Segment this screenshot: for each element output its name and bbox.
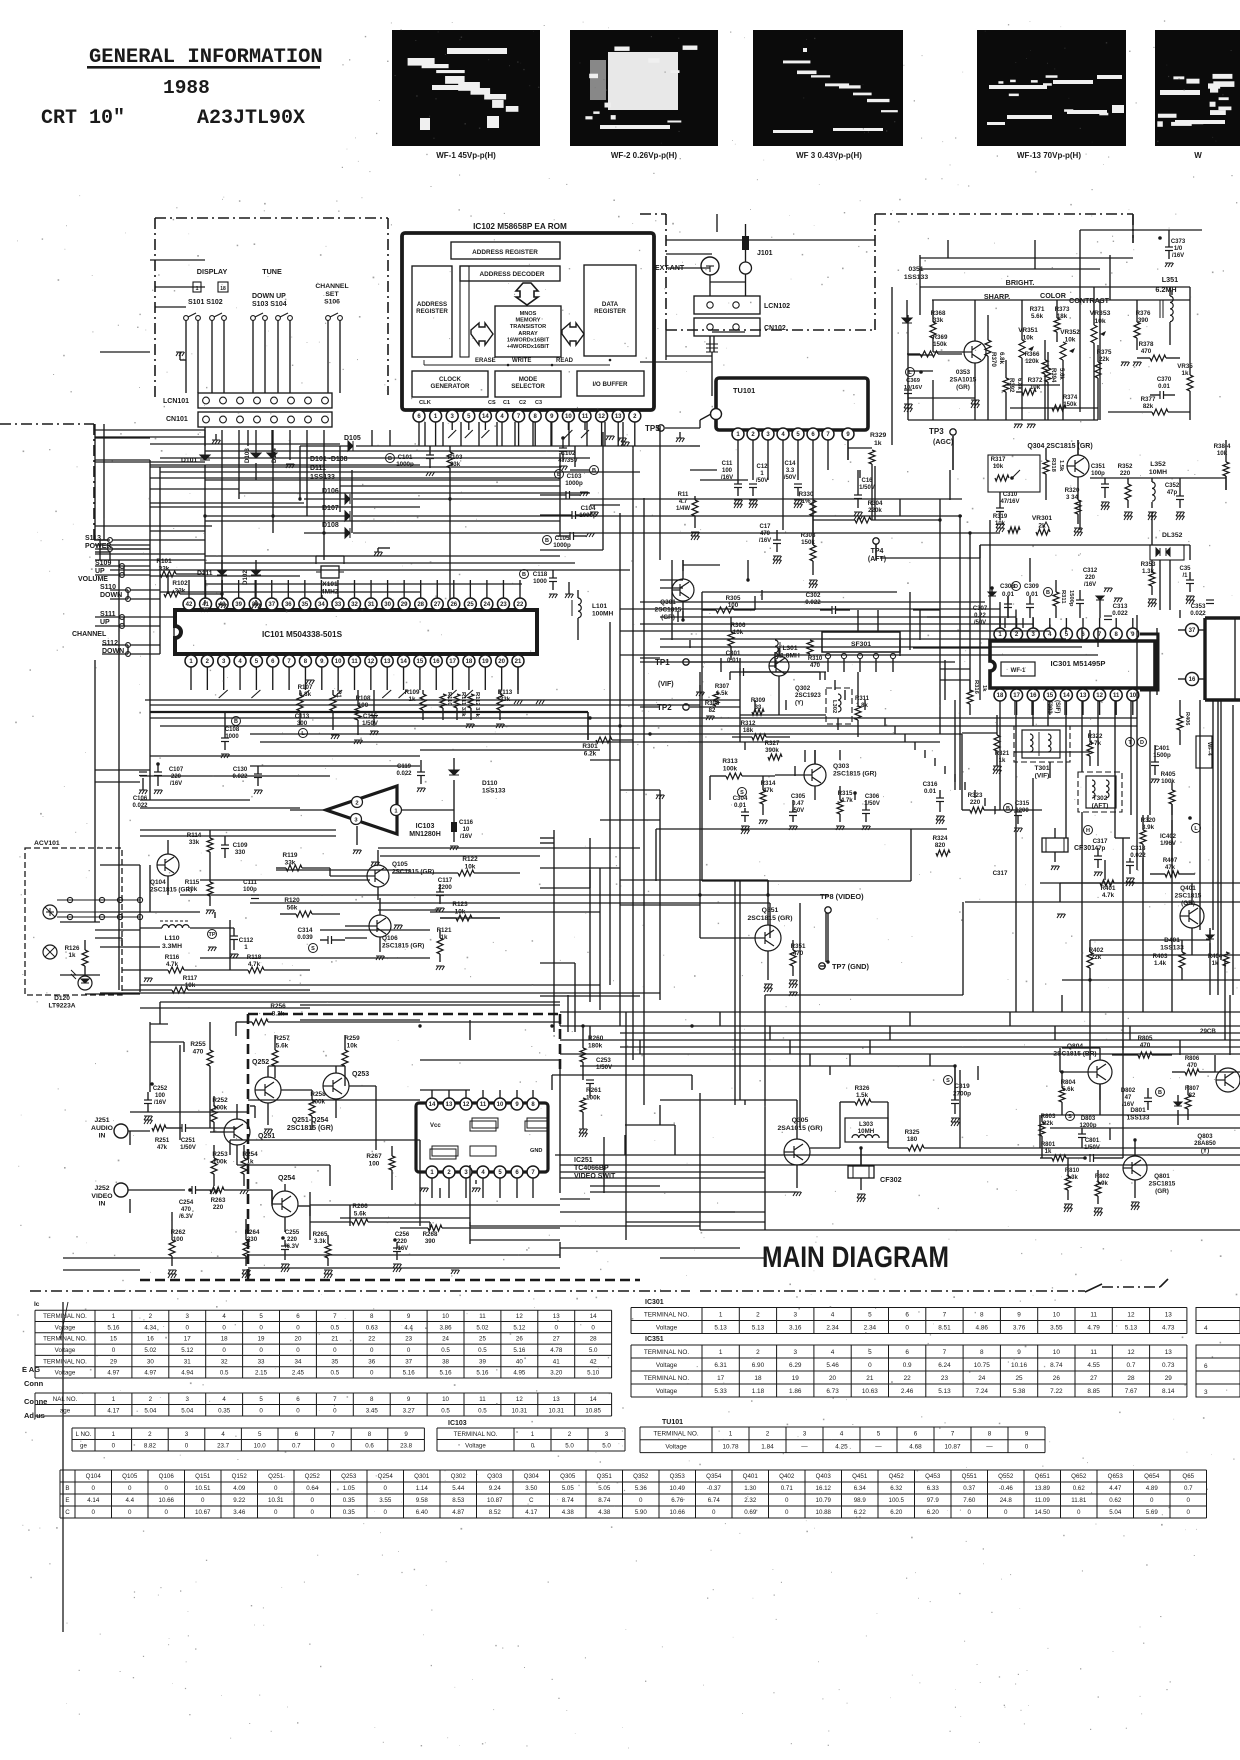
capacitor C369 10/16V [906, 368, 915, 377]
svg-text:10.31: 10.31 [512, 1407, 528, 1414]
svg-text:5.46: 5.46 [826, 1362, 839, 1369]
svg-text:0: 0 [296, 1407, 300, 1414]
svg-text:1SS133: 1SS133 [482, 788, 506, 795]
svg-text:6.90: 6.90 [752, 1362, 765, 1369]
svg-text:C304: C304 [733, 795, 748, 802]
svg-text:age: age [60, 1407, 71, 1414]
svg-text:0: 0 [201, 1497, 205, 1504]
svg-text:AUDIO: AUDIO [91, 1125, 113, 1132]
capacitor C317 47p [1084, 826, 1093, 835]
svg-text:41: 41 [553, 1358, 560, 1365]
svg-text:Q304: Q304 [524, 1473, 540, 1480]
svg-text:21: 21 [515, 659, 522, 665]
svg-text:10k: 10k [1065, 336, 1076, 343]
svg-text:8.74: 8.74 [598, 1497, 611, 1504]
svg-text:IN: IN [99, 1133, 106, 1140]
svg-text:5.16: 5.16 [403, 1370, 416, 1377]
svg-text:4.38: 4.38 [562, 1509, 575, 1516]
svg-text:7: 7 [331, 1431, 335, 1438]
svg-text:13: 13 [384, 659, 391, 665]
svg-text:9: 9 [1025, 1431, 1029, 1438]
svg-text:R305: R305 [726, 595, 741, 602]
pin 37 circle [1186, 624, 1199, 637]
svg-text:R366: R366 [1025, 351, 1040, 358]
svg-text:16: 16 [1030, 693, 1037, 699]
svg-text:VOLUME: VOLUME [78, 576, 108, 583]
wires from switches to connector [185, 320, 187, 393]
svg-text:C252: C252 [153, 1086, 168, 1092]
svg-text:R374: R374 [1063, 395, 1078, 401]
svg-text:Ic: Ic [34, 1301, 40, 1308]
svg-text:14: 14 [429, 1102, 436, 1108]
svg-text:0: 0 [531, 1442, 535, 1449]
svg-text:1/50V: 1/50V [180, 1145, 196, 1151]
svg-text:Q653: Q653 [1108, 1473, 1124, 1480]
svg-text:8: 8 [370, 1313, 374, 1320]
svg-text:12: 12 [1127, 1311, 1135, 1318]
svg-text:2SC1815: 2SC1815 [1175, 892, 1202, 899]
svg-text:6: 6 [905, 1311, 909, 1318]
svg-text:10: 10 [442, 1396, 449, 1403]
svg-text:R804: R804 [1061, 1079, 1076, 1086]
svg-text:6.20: 6.20 [927, 1509, 940, 1516]
svg-text:C12: C12 [756, 464, 768, 470]
svg-text:Q253: Q253 [341, 1473, 357, 1480]
svg-text:4.86: 4.86 [976, 1324, 989, 1331]
svg-text:CHANNEL: CHANNEL [315, 283, 348, 290]
svg-text:15: 15 [110, 1336, 117, 1343]
svg-text:Q651: Q651 [1035, 1473, 1051, 1480]
svg-text:5.05: 5.05 [598, 1485, 611, 1492]
svg-text:6: 6 [296, 1396, 300, 1403]
svg-text:4: 4 [1204, 1325, 1208, 1332]
svg-text:0.01: 0.01 [1158, 384, 1170, 390]
svg-text:120k: 120k [1025, 358, 1039, 365]
svg-text:L303: L303 [859, 1121, 874, 1128]
svg-text:11.81: 11.81 [1071, 1497, 1087, 1504]
svg-text:D801: D801 [1130, 1107, 1146, 1114]
svg-text:180k: 180k [588, 1042, 603, 1049]
svg-text:390: 390 [425, 1238, 436, 1245]
svg-text:0.01: 0.01 [1026, 591, 1039, 598]
svg-text:0: 0 [185, 1442, 189, 1449]
svg-text:L101: L101 [592, 603, 607, 610]
svg-text:0: 0 [222, 1347, 226, 1354]
svg-text:5.13: 5.13 [1125, 1324, 1138, 1331]
svg-text:C314: C314 [298, 927, 313, 934]
svg-text:TUNE: TUNE [262, 267, 282, 276]
svg-text:Q106: Q106 [159, 1473, 175, 1480]
svg-text:13: 13 [615, 414, 622, 420]
capacitor C256 220/16V [393, 1238, 397, 1242]
svg-text:C317: C317 [993, 870, 1008, 877]
svg-text:1k: 1k [69, 952, 76, 959]
svg-text:S: S [946, 1078, 950, 1084]
svg-text:C317: C317 [1093, 838, 1108, 845]
capacitor C108 1000 [232, 717, 241, 726]
svg-text:Q302: Q302 [451, 1473, 467, 1480]
svg-text:29: 29 [1165, 1375, 1173, 1382]
svg-text:(Y): (Y) [795, 699, 803, 706]
svg-text:2.46: 2.46 [901, 1388, 914, 1395]
svg-text:100: 100 [369, 1160, 380, 1167]
svg-text:8: 8 [368, 1431, 372, 1438]
svg-text:C106: C106 [133, 796, 148, 802]
svg-text:23: 23 [405, 1336, 412, 1343]
svg-text:0: 0 [591, 1324, 595, 1331]
svg-text:10: 10 [1053, 1311, 1061, 1318]
svg-text:5.12: 5.12 [513, 1324, 526, 1331]
svg-text:15: 15 [1046, 693, 1053, 699]
svg-text:100k: 100k [723, 765, 738, 772]
transistor Q302 2SC1923 [769, 656, 789, 676]
svg-text:R116: R116 [165, 954, 180, 961]
svg-text:2SC1815: 2SC1815 [1149, 1180, 1176, 1187]
svg-text:(VIF): (VIF) [658, 681, 674, 688]
svg-text:470: 470 [181, 1207, 192, 1213]
svg-text:5.16: 5.16 [440, 1370, 453, 1377]
svg-text:97.9: 97.9 [927, 1497, 940, 1504]
svg-text:TP7 (GND): TP7 (GND) [832, 962, 869, 971]
svg-text:VR351: VR351 [1018, 327, 1038, 334]
AC inlet symbol 2 [43, 945, 57, 959]
svg-text:TP8 (VIDEO): TP8 (VIDEO) [820, 892, 864, 901]
table 9-terminal voltages [72, 1427, 424, 1429]
svg-text:C11: C11 [722, 461, 733, 467]
svg-text:R376: R376 [1136, 310, 1151, 317]
svg-text:IN: IN [99, 1201, 106, 1208]
svg-text:D120: D120 [54, 995, 70, 1002]
svg-text:100MH: 100MH [592, 611, 613, 618]
svg-text:(GR): (GR) [1155, 1188, 1169, 1195]
ACV101 dashed enclosure [25, 848, 122, 995]
svg-text:R252: R252 [212, 1097, 228, 1104]
svg-text:T303: T303 [1046, 700, 1052, 714]
svg-text:6.73: 6.73 [826, 1388, 839, 1395]
svg-text:6.34: 6.34 [854, 1485, 867, 1492]
svg-text:0.62: 0.62 [1073, 1485, 1086, 1492]
svg-text:3.20: 3.20 [550, 1370, 563, 1377]
svg-text:220: 220 [213, 1204, 224, 1211]
IC102 data register box [584, 265, 636, 356]
svg-text:9: 9 [407, 1313, 411, 1320]
svg-text:0.5: 0.5 [478, 1407, 487, 1414]
svg-text:C104: C104 [581, 505, 596, 512]
svg-text:R267: R267 [366, 1153, 382, 1160]
svg-text:3 34: 3 34 [1066, 494, 1079, 501]
svg-text:3.55: 3.55 [379, 1497, 392, 1504]
svg-text:IC103: IC103 [416, 823, 435, 830]
svg-text:(GR): (GR) [1181, 900, 1195, 907]
svg-text:4.73: 4.73 [1162, 1324, 1175, 1331]
svg-text:Q801: Q801 [1154, 1173, 1170, 1180]
svg-text:B: B [545, 538, 549, 544]
table IC351 partial right column [1196, 1345, 1240, 1397]
svg-text:E AG: E AG [22, 1365, 40, 1374]
svg-text:11: 11 [479, 1396, 486, 1403]
svg-text:6.40: 6.40 [416, 1509, 429, 1516]
svg-text:R109: R109 [405, 689, 420, 696]
svg-text:TERMINAL NO.: TERMINAL NO. [644, 1311, 689, 1318]
svg-text:Q451: Q451 [852, 1473, 868, 1480]
svg-text:8.85: 8.85 [1087, 1388, 1100, 1395]
shield boundary dash-dot top left block [155, 217, 388, 219]
wire L352 bus [1090, 477, 1226, 479]
svg-text:220: 220 [970, 799, 981, 806]
svg-text:330: 330 [235, 849, 246, 856]
svg-text:Q303: Q303 [487, 1473, 503, 1480]
svg-text:9: 9 [1017, 1311, 1021, 1318]
svg-text:4.25: 4.25 [835, 1444, 848, 1451]
svg-text:33: 33 [258, 1358, 265, 1365]
svg-text:1/50V: 1/50V [596, 1064, 613, 1071]
svg-text:R259: R259 [344, 1035, 360, 1042]
svg-text:3.45: 3.45 [366, 1407, 379, 1414]
svg-text:47/16V: 47/16V [1000, 499, 1019, 505]
svg-text:0: 0 [1025, 1444, 1029, 1451]
svg-text:2: 2 [355, 801, 358, 807]
svg-text:4: 4 [831, 1349, 835, 1356]
svg-text:C119: C119 [397, 764, 412, 770]
svg-text:5.0: 5.0 [602, 1442, 611, 1449]
svg-text:0.022: 0.022 [396, 771, 412, 777]
svg-text:0: 0 [785, 1497, 789, 1504]
svg-text:Q353: Q353 [670, 1473, 686, 1480]
svg-text:28: 28 [1127, 1375, 1135, 1382]
waveform photo WF-13 70Vp-p(H) [977, 30, 1126, 146]
svg-text:10.87: 10.87 [487, 1497, 503, 1504]
svg-text:7: 7 [333, 1396, 337, 1403]
svg-text:S112: S112 [102, 640, 118, 647]
svg-text:0: 0 [1187, 1509, 1191, 1516]
svg-text:24.8: 24.8 [1000, 1497, 1013, 1504]
svg-text:Q305: Q305 [560, 1473, 576, 1480]
svg-text:36: 36 [285, 602, 292, 608]
svg-text:Q253: Q253 [352, 1071, 369, 1078]
svg-text:R102: R102 [172, 580, 188, 587]
switch S104 [276, 313, 293, 320]
bold bus under IC101 [150, 711, 588, 713]
svg-text:28: 28 [590, 1336, 597, 1343]
svg-text:R371: R371 [1030, 306, 1045, 313]
svg-text:ADDRESS: ADDRESS [417, 301, 447, 308]
svg-text:11: 11 [1090, 1311, 1097, 1318]
svg-text:4.79: 4.79 [1087, 1324, 1100, 1331]
svg-text:7.67: 7.67 [1125, 1388, 1138, 1395]
svg-text:470: 470 [760, 531, 771, 537]
svg-text:TP: TP [208, 932, 215, 938]
svg-text:D101~D108: D101~D108 [310, 456, 348, 463]
svg-text:0.35: 0.35 [343, 1509, 356, 1516]
svg-text:ACV101: ACV101 [34, 840, 60, 847]
svg-text:17: 17 [184, 1336, 191, 1343]
svg-text:R11: R11 [678, 492, 689, 498]
svg-text:20: 20 [498, 659, 505, 665]
svg-text:42: 42 [186, 602, 193, 608]
svg-text:Voltage: Voltage [465, 1442, 486, 1449]
svg-text:28A850: 28A850 [1194, 1140, 1216, 1147]
svg-text:10.31: 10.31 [549, 1407, 565, 1414]
svg-text:100: 100 [722, 468, 733, 474]
svg-text:0.64: 0.64 [306, 1485, 319, 1492]
svg-text:C370: C370 [1157, 377, 1172, 383]
svg-text:D102: D102 [242, 570, 249, 585]
ceramic filter CF302 [848, 1166, 874, 1178]
svg-text:/16V: /16V [1084, 582, 1096, 588]
svg-text:R318: R318 [1050, 458, 1056, 473]
svg-text:R329: R329 [870, 432, 886, 439]
svg-text:17: 17 [1013, 693, 1020, 699]
switch S102 icon [218, 282, 228, 292]
svg-text:0.6: 0.6 [365, 1442, 374, 1449]
svg-text:B: B [65, 1485, 69, 1492]
svg-text:0: 0 [1187, 1497, 1191, 1504]
svg-text:4.4: 4.4 [125, 1497, 134, 1504]
svg-text:39: 39 [235, 602, 242, 608]
svg-text:0: 0 [165, 1509, 169, 1516]
bold wire IC301 to right [1140, 634, 1158, 690]
svg-text:0: 0 [407, 1347, 411, 1354]
svg-text:R126: R126 [65, 945, 80, 952]
svg-text:0.5: 0.5 [441, 1407, 450, 1414]
svg-text:(AFT): (AFT) [868, 556, 886, 563]
svg-text:C319: C319 [954, 1083, 970, 1090]
transistor Q853 right edge [1216, 1068, 1240, 1092]
svg-text:8.51: 8.51 [938, 1324, 951, 1331]
section frame lines right-bottom [764, 995, 766, 1230]
svg-text:R117: R117 [183, 975, 198, 982]
svg-text:10.75: 10.75 [974, 1362, 990, 1369]
svg-text:220: 220 [171, 774, 182, 780]
svg-text:B: B [1046, 590, 1050, 596]
svg-text:4.97: 4.97 [144, 1370, 157, 1377]
svg-text:8.82: 8.82 [144, 1442, 157, 1449]
svg-text:10.85: 10.85 [585, 1407, 601, 1414]
svg-text:20: 20 [829, 1375, 837, 1382]
svg-text:R375: R375 [1097, 349, 1112, 356]
svg-text:Q252: Q252 [305, 1473, 321, 1480]
svg-text:C318: C318 [1131, 845, 1146, 852]
svg-text:/16V: /16V [170, 781, 182, 787]
svg-text:26: 26 [1053, 1375, 1061, 1382]
svg-text:1000: 1000 [225, 734, 239, 740]
svg-text:ADDRESS DECODER: ADDRESS DECODER [480, 271, 545, 278]
svg-text:MNOS: MNOS [520, 311, 537, 317]
coax to tuner [709, 336, 711, 352]
svg-text:Q453: Q453 [925, 1473, 941, 1480]
svg-text:Voltage: Voltage [656, 1388, 678, 1395]
svg-text:10: 10 [1129, 693, 1136, 699]
svg-text:6: 6 [296, 1313, 300, 1320]
audio shield dashed box [140, 1014, 640, 1280]
svg-text:D103: D103 [244, 448, 251, 463]
svg-text:470: 470 [193, 1048, 204, 1055]
IC102 MNOS memory transistor array box [495, 306, 561, 357]
svg-text:6.29: 6.29 [789, 1362, 802, 1369]
svg-text:47p: 47p [1095, 845, 1106, 852]
svg-text:27: 27 [1090, 1375, 1098, 1382]
svg-text:Q402: Q402 [779, 1473, 795, 1480]
svg-text:390k: 390k [765, 747, 779, 754]
svg-text:B: B [522, 572, 526, 578]
svg-text:10.31: 10.31 [268, 1497, 284, 1504]
svg-text:16: 16 [433, 659, 440, 665]
svg-text:Q152: Q152 [232, 1473, 248, 1480]
wires below IC101 pins [190, 667, 192, 690]
capacitor C107 220/16V [156, 762, 160, 766]
svg-text:UP: UP [100, 619, 110, 626]
svg-text:Q401: Q401 [743, 1473, 759, 1480]
svg-text:Q303: Q303 [833, 763, 849, 770]
svg-text:MODE: MODE [519, 376, 538, 383]
svg-text:R407: R407 [1163, 858, 1178, 864]
svg-text:Q254: Q254 [378, 1473, 394, 1480]
svg-text:R254: R254 [242, 1151, 258, 1158]
svg-text:13: 13 [446, 1102, 453, 1108]
wire ladder between IC102 and IC101 [95, 436, 205, 438]
ground TP1 area [696, 692, 705, 696]
svg-text:D803: D803 [1081, 1116, 1096, 1122]
svg-text:Q403: Q403 [816, 1473, 832, 1480]
svg-text:0.62: 0.62 [1109, 1497, 1122, 1504]
wire verticals connector to bus [221, 430, 223, 600]
svg-text:11: 11 [582, 414, 589, 420]
crystal X101 4MHZ [316, 556, 344, 564]
svg-text:1: 1 [719, 1349, 723, 1356]
shield boundary left entry [0, 423, 94, 425]
svg-text:LCN102: LCN102 [764, 303, 790, 310]
svg-text:0.7: 0.7 [292, 1442, 301, 1449]
svg-text:0: 0 [112, 1442, 116, 1449]
svg-text:0.022: 0.022 [232, 774, 248, 780]
svg-text:2: 2 [756, 1349, 760, 1356]
svg-text:10k: 10k [1023, 334, 1034, 341]
svg-text:C353: C353 [1191, 603, 1206, 610]
svg-text:L NO.: L NO. [76, 1431, 92, 1438]
ground stub left [208, 947, 217, 951]
svg-text:CN102: CN102 [764, 325, 786, 332]
svg-text:C302: C302 [806, 592, 821, 599]
svg-text:10.79: 10.79 [816, 1497, 832, 1504]
svg-text:25: 25 [467, 602, 474, 608]
svg-text:4.47: 4.47 [1109, 1485, 1122, 1492]
svg-text:0: 0 [785, 1509, 789, 1516]
svg-text:/50V: /50V [784, 475, 796, 481]
svg-text:CF301: CF301 [1074, 845, 1095, 852]
svg-text:16WORDx16BIT: 16WORDx16BIT [507, 337, 550, 343]
svg-text:Voltage: Voltage [665, 1444, 687, 1451]
svg-text:1.14: 1.14 [416, 1485, 429, 1492]
svg-text:Q151: Q151 [195, 1473, 211, 1480]
bottom page divider dash-dot [30, 1290, 690, 1292]
svg-text:35: 35 [302, 602, 309, 608]
svg-text:8.53: 8.53 [452, 1497, 465, 1504]
svg-text:C109: C109 [233, 842, 248, 849]
svg-text:5.02: 5.02 [476, 1324, 489, 1331]
svg-text:S113: S113 [85, 535, 101, 542]
svg-text:11.09: 11.09 [1035, 1497, 1051, 1504]
svg-text:34: 34 [295, 1358, 302, 1365]
svg-text:B: B [234, 719, 238, 725]
svg-text:6.8k: 6.8k [1016, 378, 1022, 390]
svg-text:C17: C17 [759, 524, 771, 530]
svg-text:12: 12 [1096, 693, 1103, 699]
svg-text:0.5: 0.5 [478, 1347, 487, 1354]
svg-text:0.37: 0.37 [963, 1485, 976, 1492]
wire mesh horizontal [660, 445, 690, 447]
svg-text:2: 2 [756, 1311, 760, 1318]
svg-text:0: 0 [112, 1347, 116, 1354]
